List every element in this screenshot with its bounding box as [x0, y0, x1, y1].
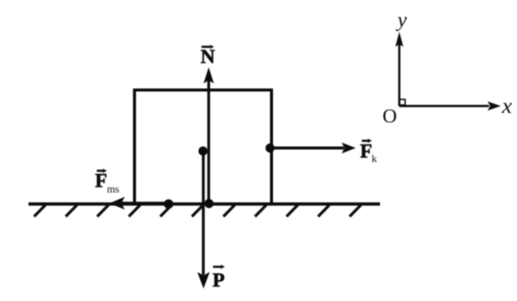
svg-text:k: k — [372, 153, 378, 165]
svg-text:P: P — [213, 270, 225, 292]
svg-text:y: y — [396, 8, 408, 32]
svg-text:F: F — [95, 170, 107, 192]
svg-text:O: O — [383, 106, 397, 128]
svg-text:x: x — [501, 93, 512, 118]
svg-text:ms: ms — [107, 185, 119, 196]
svg-text:N: N — [201, 46, 216, 68]
svg-text:F: F — [360, 141, 372, 163]
